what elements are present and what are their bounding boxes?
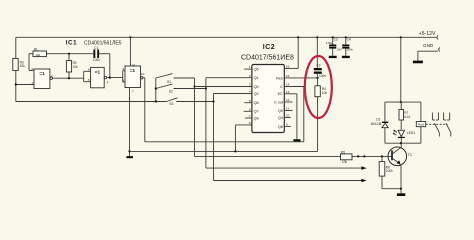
- svg-text:10: 10: [141, 72, 145, 76]
- op gate U1.2: [84, 67, 109, 87]
- svg-text:S1: S1: [167, 80, 171, 84]
- capacitor C1: [69, 46, 110, 62]
- svg-text:T1: T1: [408, 153, 412, 157]
- svg-text:Q5: Q5: [254, 68, 259, 72]
- svg-text:10k: 10k: [73, 65, 79, 69]
- transistor T1: [388, 143, 412, 165]
- svg-text:IC1: IC1: [66, 40, 77, 47]
- wire switch common: [155, 78, 157, 102]
- node C2 rail: [316, 36, 318, 38]
- svg-text:13: 13: [286, 90, 290, 94]
- svg-text:10k: 10k: [20, 64, 26, 68]
- connector GND: [413, 43, 440, 63]
- svg-text:=1: =1: [39, 71, 45, 76]
- resistor R3: [13, 58, 25, 70]
- wire C1 right to gate2 output node: [109, 54, 111, 78]
- node gate1out-R2: [68, 77, 70, 79]
- node C4 rail: [345, 36, 347, 38]
- svg-text:Q2: Q2: [254, 92, 259, 96]
- svg-text:C2: C2: [316, 63, 320, 67]
- node C3 rail: [332, 36, 334, 38]
- svg-text:16: 16: [286, 65, 290, 69]
- wire R1 left to gate1 pin2: [29, 54, 34, 71]
- relay coil Rel1: [416, 122, 425, 127]
- node S3 tap: [212, 100, 214, 102]
- svg-text:14: 14: [286, 83, 290, 87]
- wire gate1 out to gate2 in: [52, 77, 83, 79]
- connector +5-12V: [419, 31, 439, 39]
- node R1-R2-C1: [68, 53, 70, 55]
- wire R3 top stem: [15, 37, 17, 58]
- node reset: [317, 77, 319, 79]
- wire Q2 line arrow: [214, 179, 367, 183]
- svg-text:C4: C4: [347, 38, 351, 42]
- resistor R1: [29, 48, 69, 57]
- wire Q1 line arrow: [206, 166, 367, 170]
- relay contact K1: [432, 113, 439, 137]
- wire Q2 down: [213, 94, 215, 181]
- node S2 pivot: [155, 87, 157, 89]
- svg-text:IC2: IC2: [263, 44, 275, 51]
- svg-text:5.1k: 5.1k: [404, 115, 410, 119]
- svg-text:EC: EC: [278, 92, 284, 96]
- wire Q1: [206, 77, 252, 79]
- wire gate3 out clock line: [143, 78, 304, 142]
- node gnd junction: [128, 150, 130, 152]
- svg-text:CD4001/561ЛЕ5: CD4001/561ЛЕ5: [84, 40, 122, 46]
- resistor R4: [315, 78, 327, 151]
- relay contact K2: [444, 113, 451, 137]
- svg-text:10k: 10k: [322, 91, 328, 95]
- capacitor C3: [326, 37, 342, 58]
- wire IC2 pin8 to ground: [235, 125, 252, 151]
- wire +V down: [400, 37, 402, 102]
- svg-text:Q6: Q6: [254, 101, 259, 105]
- IC2 pin names left: [254, 68, 259, 121]
- wire IC2 pin16 to +V: [284, 37, 298, 68]
- ground IC1: [126, 151, 133, 158]
- svg-text:Q3: Q3: [254, 116, 259, 120]
- svg-text:12: 12: [286, 98, 290, 102]
- resistor R2: [66, 54, 78, 78]
- node +V rail: [400, 36, 402, 38]
- wire Q1 down: [205, 78, 207, 168]
- node S3 pivot: [155, 100, 157, 102]
- switch S2: [156, 84, 206, 93]
- resistor R5: [341, 151, 392, 164]
- capacitor C2: [314, 37, 327, 78]
- IC2 right stubs: [284, 102, 292, 126]
- node Q0 tap: [193, 85, 195, 87]
- wire relay dashed link: [426, 123, 448, 125]
- svg-text:1N4148: 1N4148: [370, 122, 381, 126]
- svg-text:10k: 10k: [342, 160, 348, 164]
- svg-text:Q4: Q4: [278, 116, 283, 120]
- wire IC2 pin14 clock: [284, 86, 304, 88]
- capacitor C4: [342, 37, 354, 58]
- svg-text:C1: C1: [94, 46, 98, 50]
- wire relay block frame: [385, 102, 421, 143]
- svg-text:R1: R1: [34, 48, 38, 52]
- switch S3: [167, 98, 214, 106]
- wire emitter down: [400, 165, 402, 189]
- node pin16 rail: [297, 36, 299, 38]
- svg-text:Rel1: Rel1: [418, 123, 425, 127]
- svg-text:S3: S3: [169, 102, 173, 106]
- diode D1: [370, 118, 388, 128]
- switch S1: [156, 74, 195, 84]
- wire top +V rail: [16, 36, 437, 38]
- svg-text:GND: GND: [423, 43, 434, 48]
- svg-text:=1: =1: [130, 68, 136, 73]
- node base dots: [357, 155, 359, 157]
- svg-text:C3: C3: [334, 38, 338, 42]
- svg-text:15: 15: [286, 74, 290, 78]
- node pin8 gnd: [234, 150, 236, 152]
- node collector: [400, 142, 402, 144]
- node pin14 rail: [129, 36, 131, 38]
- svg-text:100k: 100k: [386, 169, 393, 173]
- wire IC2 pin13 to ground: [284, 94, 297, 139]
- wire base line: [195, 155, 341, 157]
- svg-text:+5-12V: +5-12V: [419, 31, 436, 37]
- svg-text:10k: 10k: [35, 53, 40, 57]
- LED LED1: [393, 130, 415, 144]
- op gate U1.1: [31, 67, 53, 89]
- svg-text:LED1: LED1: [407, 131, 416, 135]
- svg-text:R5: R5: [341, 151, 345, 155]
- op gate U1.3: [123, 63, 145, 93]
- red highlight ellipse: [305, 56, 332, 118]
- wire Q2: [214, 93, 252, 95]
- svg-text:Q1: Q1: [254, 76, 259, 80]
- ground emitter: [397, 189, 405, 196]
- node emitter gnd: [400, 188, 402, 190]
- svg-text:Q7: Q7: [254, 110, 259, 114]
- IC2 pin numbers left: [249, 65, 251, 125]
- svg-text:Q9: Q9: [278, 109, 283, 113]
- op-amp IC2 box: [252, 65, 284, 133]
- svg-text:S2: S2: [169, 89, 173, 93]
- wire gate2 out to gate3 in: [107, 77, 123, 79]
- resistor R7: [399, 102, 411, 130]
- svg-text:10: 10: [286, 114, 290, 118]
- wire gate3 pin14 to +V: [129, 37, 131, 66]
- svg-text:Q8: Q8: [278, 125, 283, 129]
- svg-text:Res: Res: [276, 76, 283, 80]
- IC2 pin numbers right: [286, 65, 290, 127]
- ground EC: [293, 139, 300, 141]
- wire bottom rail to switch common: [16, 101, 167, 103]
- resistor R6: [379, 156, 401, 188]
- wire Q0: [195, 86, 252, 88]
- node R3-gate1 junction: [15, 83, 17, 85]
- wire S1 to base line: [194, 78, 196, 156]
- wire IC2 pin15 reset: [284, 77, 317, 79]
- svg-text:100n: 100n: [347, 48, 354, 52]
- svg-text:=1: =1: [95, 69, 101, 74]
- node S2 tap: [205, 87, 207, 89]
- svg-text:11: 11: [286, 107, 289, 111]
- node C1-gate2out: [109, 77, 111, 79]
- wire ground net: [130, 150, 318, 152]
- IC2 left pin stubs: [244, 69, 252, 118]
- node R6 tap: [381, 155, 383, 157]
- IC2 pin names right: [274, 76, 284, 129]
- svg-text:CD4017/561ИЕ8: CD4017/561ИЕ8: [241, 54, 294, 61]
- svg-text:14: 14: [132, 63, 136, 67]
- wire gate3 pin7 to ground: [129, 88, 131, 152]
- svg-text:C out: C out: [274, 100, 284, 104]
- svg-text:470u: 470u: [326, 41, 333, 45]
- wire R3 bottom to gate1 pin1: [16, 71, 34, 102]
- svg-text:Q0: Q0: [254, 85, 259, 89]
- svg-text:16V: 16V: [337, 48, 342, 52]
- svg-text:100n: 100n: [319, 74, 326, 78]
- node relay top: [400, 101, 402, 103]
- svg-text:C: C: [280, 85, 283, 89]
- svg-text:100n: 100n: [93, 58, 100, 62]
